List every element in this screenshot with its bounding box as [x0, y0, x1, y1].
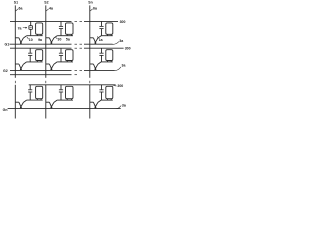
transistor cell row n col 2 drain bar [46, 101, 50, 103]
transistor cell row n col 3 source diagonal [98, 100, 101, 102]
memory box left leg cell row 2 col 1 [36, 61, 38, 62]
capacitor cell row 2 col 2 bottom plate [59, 54, 63, 56]
label 10 leader [27, 37, 29, 39]
transistor cell row n col 1 gate V [19, 102, 24, 107]
svg-text:G1: G1 [5, 43, 10, 47]
memory element box cell row 1 col 1 [36, 23, 43, 34]
capacitor cell row 2 col 3 lower lead [101, 55, 103, 62]
wire cell row 1 col 1 channel bar [27, 35, 43, 37]
wire cell row 2 col 1 channel bar [27, 61, 43, 63]
transistor cell row 1 col 1 drain bar [15, 37, 19, 39]
memory box left leg cell row 1 col 1 [36, 34, 38, 35]
capacitor cell row n col 3 top plate [99, 89, 103, 91]
transistor cell row 1 col 2 source diagonal [54, 36, 57, 38]
memory element box cell row 2 col 1 [36, 50, 43, 61]
transistor cell row n col 1 source diagonal [23, 100, 26, 102]
memory element box cell row 1 col 2 [66, 23, 74, 34]
memory element box cell row n col 1 [36, 86, 43, 98]
tunnel element 7a box [29, 26, 33, 30]
memory box right leg cell row 1 col 3 [110, 34, 112, 35]
memory element box cell row 2 col 3 [106, 50, 113, 61]
transistor cell row n col 3 drain bar [90, 101, 94, 103]
memory element box cell row n col 2 [66, 86, 74, 98]
memory box right leg cell row 1 col 2 [70, 34, 72, 35]
memory box left leg cell row 2 col 2 [66, 61, 68, 62]
memory box right leg cell row 1 col 1 [40, 34, 42, 35]
memory box left leg cell row 1 col 2 [66, 34, 68, 35]
memory element box cell row n col 3 [106, 86, 113, 98]
transistor cell row 2 col 1 gate V [19, 64, 24, 69]
wire tunnel element to channel [30, 29, 32, 35]
wire riser to tunnel element 7a [30, 21, 32, 25]
label 6a leader [16, 9, 19, 11]
memory box right leg cell row n col 2 [70, 99, 72, 100]
svg-text:3a: 3a [119, 39, 123, 43]
wire S3 vertical bit line (lower) [89, 85, 91, 119]
transistor cell row 1 col 3 source diagonal [98, 36, 101, 38]
capacitor cell row 2 col 1 lower lead [29, 55, 31, 62]
memory box right leg cell row 2 col 2 [70, 61, 72, 62]
svg-text:G2: G2 [3, 69, 8, 73]
wire row-n branch line 300 [29, 84, 116, 86]
svg-text:5a: 5a [66, 38, 70, 42]
capacitor cell row 2 col 3 top plate [99, 52, 103, 54]
memory element box cell row 2 col 2 [66, 50, 74, 61]
transistor cell row 1 col 2 gate V [49, 38, 54, 43]
wire cell row n col 1 channel bar [27, 99, 43, 101]
wire cell row 2 col 3 channel bar [101, 61, 113, 63]
capacitor cell row n col 3 bottom plate [99, 91, 103, 93]
svg-text:7a: 7a [18, 26, 22, 30]
memory box right leg cell row n col 3 [110, 99, 112, 100]
transistor cell row 2 col 2 source diagonal [54, 62, 57, 64]
svg-text:6a: 6a [19, 7, 23, 11]
memory box right leg cell row 2 col 1 [40, 61, 42, 62]
svg-text:30: 30 [58, 38, 62, 42]
wire cell row n col 2 channel bar [57, 99, 73, 101]
svg-text:S2: S2 [44, 1, 48, 5]
junction dot cell row n col 2 gate-wordline [50, 106, 52, 108]
capacitor cell row 2 col 2 top plate [59, 52, 63, 54]
capacitor cell row 1 col 3 lower lead [101, 29, 103, 36]
capacitor cell row n col 2 riser [60, 85, 62, 90]
transistor cell row 2 col 1 drain bar [15, 63, 19, 65]
capacitor cell row 2 col 2 lower lead [60, 55, 62, 62]
transistor cell row 1 col 3 drain bar [90, 37, 94, 39]
transistor cell row 2 col 1 source diagonal [23, 62, 26, 64]
wire G2 word line [10, 69, 115, 71]
wire row-1 branch line 300 [10, 20, 118, 22]
capacitor cell row 1 col 2 bottom plate [59, 28, 63, 30]
wire row-2 branch line 300 [10, 47, 124, 49]
label 300 leader (row n) [112, 85, 116, 86]
label 3a leader (G2) [115, 67, 121, 71]
label 3a leader (Gn) [116, 106, 121, 109]
svg-text:S1: S1 [14, 1, 18, 5]
svg-text:3a: 3a [122, 64, 126, 68]
label 4a leader [46, 9, 49, 11]
svg-text:3a: 3a [122, 103, 126, 107]
capacitor cell row 2 col 1 riser [29, 48, 31, 53]
wire cell row n col 3 channel bar [101, 99, 113, 101]
capacitor cell row n col 1 riser [29, 85, 31, 90]
capacitor cell row n col 2 lower lead [60, 92, 62, 100]
capacitor cell row 2 col 1 top plate [28, 52, 32, 54]
transistor cell row n col 2 source diagonal [54, 100, 57, 102]
capacitor cell row n col 1 top plate [28, 89, 32, 91]
wire S2 vertical bit line (upper) [45, 5, 47, 77]
transistor cell row 2 col 3 gate V [93, 64, 98, 69]
memory element box cell row 1 col 3 [106, 23, 113, 34]
wire S2 vertical bit line (lower) [45, 85, 47, 119]
memory box left leg cell row 1 col 3 [107, 34, 109, 35]
capacitor cell row 2 col 3 riser [101, 48, 103, 53]
memory box left leg cell row n col 2 [66, 99, 68, 100]
capacitor cell row n col 1 bottom plate [28, 91, 32, 93]
junction dot cell row 1 col 1 gate-wordline [20, 42, 22, 44]
wire S2 vertical continuation dash [45, 81, 47, 83]
capacitor cell row n col 3 lower lead [101, 92, 103, 100]
transistor cell row 1 col 2 drain bar [46, 37, 50, 39]
tunnel element 7a inner plate [30, 27, 32, 29]
capacitor cell row 2 col 3 bottom plate [99, 54, 103, 56]
svg-text:300: 300 [117, 84, 123, 88]
memory box left leg cell row n col 1 [36, 99, 38, 100]
transistor cell row 2 col 2 gate V [49, 64, 54, 69]
svg-text:6a: 6a [93, 7, 97, 11]
transistor cell row 1 col 3 gate V [93, 38, 98, 43]
svg-text:Gn: Gn [3, 108, 8, 112]
transistor cell row 1 col 1 gate V [19, 38, 24, 43]
transistor cell row 2 col 2 drain bar [46, 63, 50, 65]
wire cell row 2 col 2 channel bar [57, 61, 73, 63]
junction dot cell row n col 1 gate-wordline [20, 106, 22, 108]
transistor cell row 2 col 3 source diagonal [98, 62, 101, 64]
wire G1 word line [10, 43, 113, 45]
junction dot cell row n col 3 gate-wordline [94, 106, 96, 108]
capacitor cell row 2 col 2 riser [60, 48, 62, 53]
svg-text:Sn: Sn [88, 1, 92, 5]
junction dot cell row 1 col 2 gate-wordline [50, 42, 52, 44]
junction dot cell row 2 col 3 gate-wordline [94, 68, 96, 70]
label 1a leader [97, 36, 98, 38]
svg-text:1a: 1a [99, 38, 103, 42]
junction dot cell row 2 col 1 gate-wordline [20, 68, 22, 70]
svg-text:9a: 9a [38, 38, 42, 42]
capacitor cell row 1 col 2 top plate [59, 25, 63, 27]
label 6a leader [90, 9, 93, 11]
transistor cell row 1 col 1 source diagonal [23, 36, 26, 38]
svg-text:10: 10 [29, 38, 33, 42]
svg-text:300: 300 [120, 20, 126, 24]
transistor cell row 2 col 3 drain bar [90, 63, 94, 65]
label 3a leader (G1) [113, 42, 119, 45]
capacitor cell row 1 col 3 bottom plate [99, 28, 103, 30]
capacitor cell row 1 col 2 lower lead [60, 29, 62, 36]
transistor cell row n col 1 drain bar [15, 101, 19, 103]
label 30 leader [56, 37, 58, 39]
capacitor cell row n col 2 top plate [59, 89, 63, 91]
memory box right leg cell row 2 col 3 [110, 61, 112, 62]
transistor cell row n col 2 gate V [49, 102, 54, 107]
capacitor cell row n col 3 riser [101, 85, 103, 90]
capacitor cell row 1 col 3 riser [101, 21, 103, 26]
wire S3 vertical bit line (upper) [89, 5, 91, 77]
wire row-3 branch line (continuation stub) [10, 74, 77, 76]
capacitor cell row 2 col 1 bottom plate [28, 54, 32, 56]
capacitor cell row 1 col 3 top plate [99, 25, 103, 27]
wire S1 vertical bit line (upper) [14, 5, 16, 77]
junction dot cell row 2 col 2 gate-wordline [50, 68, 52, 70]
transistor cell row n col 3 gate V [93, 102, 98, 107]
wire cell row 1 col 3 channel bar [101, 35, 113, 37]
capacitor cell row 1 col 2 riser [60, 21, 62, 26]
wire Gn word line [8, 108, 121, 110]
wire S3 vertical continuation dash [89, 81, 91, 83]
junction dot cell row 1 col 3 gate-wordline [94, 42, 96, 44]
svg-text:300: 300 [125, 47, 131, 51]
memory box right leg cell row n col 1 [40, 99, 42, 100]
memory box left leg cell row n col 3 [107, 99, 109, 100]
memory box left leg cell row 2 col 3 [107, 61, 109, 62]
label 7a arrow [23, 27, 27, 28]
svg-text:4a: 4a [49, 7, 53, 11]
capacitor cell row n col 2 bottom plate [59, 91, 63, 93]
wire S1 vertical continuation dash [14, 81, 16, 83]
wire S1 vertical bit line (lower) [14, 85, 16, 119]
capacitor cell row n col 1 lower lead [29, 92, 31, 100]
wire cell row 1 col 2 channel bar [57, 35, 73, 37]
